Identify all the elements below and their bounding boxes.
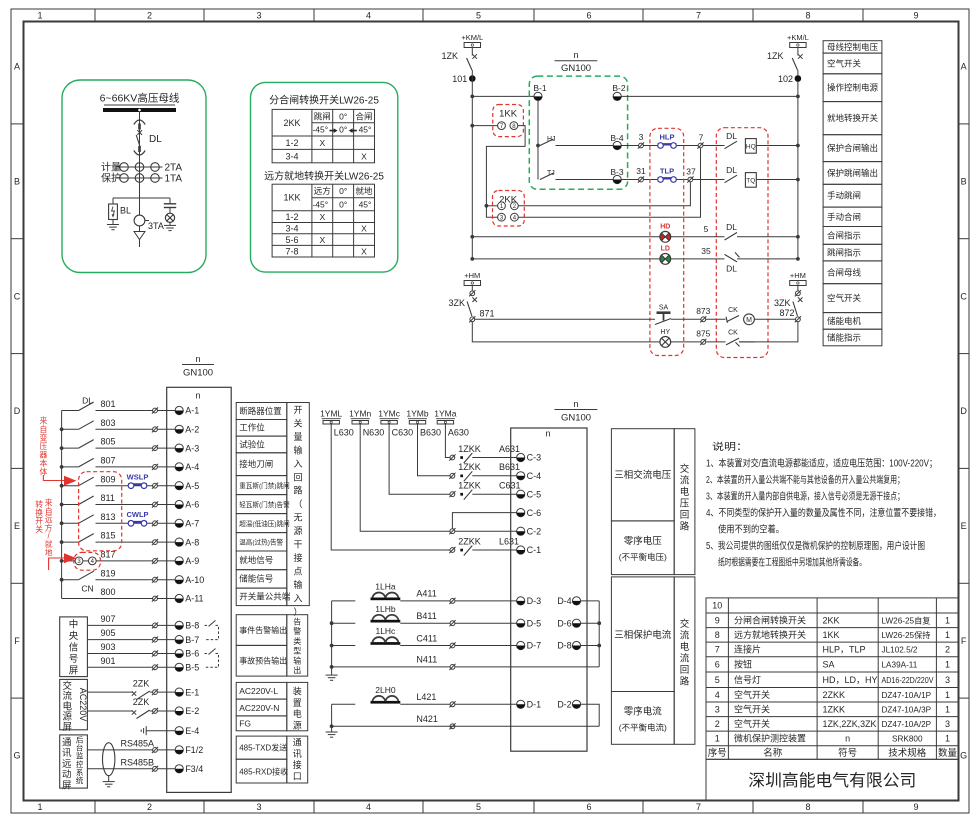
svg-text:1YML: 1YML [320, 409, 342, 419]
wire [643, 179, 657, 181]
svg-text:通讯接口: 通讯接口 [293, 738, 302, 782]
terminal A-2 [175, 425, 183, 433]
svg-text:手动跳闸: 手动跳闸 [827, 191, 861, 201]
svg-text:0°: 0° [339, 186, 347, 196]
svg-text:A-3: A-3 [185, 443, 199, 453]
input contact wire 813 [62, 522, 79, 524]
svg-text:C-5: C-5 [527, 489, 542, 499]
svg-text:GN100: GN100 [561, 63, 591, 74]
terminal RS485A [152, 747, 158, 753]
svg-text:903: 903 [101, 642, 116, 652]
svg-text:1、本装置对交/直流电源都能适应，适应电压范围：100V-2: 1、本装置对交/直流电源都能适应，适应电压范围：100V-220V； [706, 457, 937, 470]
svg-text:907: 907 [101, 614, 116, 624]
svg-text:AC220V: AC220V [78, 688, 88, 722]
svg-text:3: 3 [256, 802, 261, 812]
svg-text:X: X [361, 246, 367, 256]
wire [455, 622, 517, 624]
svg-text:纸时根据需要在工程图纸中另增加其他所需设备。: 纸时根据需要在工程图纸中另增加其他所需设备。 [718, 555, 866, 568]
svg-text:C631: C631 [499, 481, 521, 491]
svg-text:温高(过热)告警: 温高(过热)告警 [239, 538, 283, 547]
svg-text:5: 5 [715, 675, 720, 685]
svg-text:SA: SA [659, 305, 669, 312]
svg-text:序号: 序号 [708, 747, 727, 759]
svg-text:就地转换开关: 就地转换开关 [827, 113, 879, 123]
svg-text:F1/2: F1/2 [185, 745, 203, 755]
terminal D-1 [517, 700, 525, 708]
svg-text:空气开关: 空气开关 [734, 718, 770, 729]
wire [737, 236, 798, 238]
svg-text:31: 31 [636, 166, 646, 176]
svg-text:X: X [361, 151, 367, 161]
legend three-phase AC voltage [611, 429, 695, 575]
svg-text:5-6: 5-6 [285, 235, 298, 245]
svg-text:n: n [545, 429, 550, 439]
svg-text:E: E [14, 521, 20, 531]
motor M [744, 314, 755, 325]
svg-text:RS485B: RS485B [121, 757, 155, 767]
svg-text:2、本装置的开入量公共端不能与其他设备的开入量公共端复用；: 2、本装置的开入量公共端不能与其他设备的开入量公共端复用； [706, 473, 904, 486]
terminal 815 [152, 539, 158, 545]
svg-text:n: n [195, 390, 200, 400]
svg-text:合闸母线: 合闸母线 [827, 267, 862, 277]
terminal A-9 [175, 557, 183, 565]
svg-text:跳闸指示: 跳闸指示 [827, 248, 861, 258]
svg-text:GN100: GN100 [183, 368, 213, 379]
svg-text:远方就地转换开关: 远方就地转换开关 [734, 629, 806, 640]
svg-text:872: 872 [779, 308, 794, 318]
svg-text:2ZK: 2ZK [133, 678, 150, 688]
terminal F1/2 [175, 746, 183, 754]
svg-text:4: 4 [715, 690, 720, 700]
svg-text:按钮: 按钮 [734, 659, 752, 670]
svg-text:LW26-25保持: LW26-25保持 [882, 630, 931, 640]
svg-text:6: 6 [715, 660, 720, 670]
svg-text:C: C [14, 291, 21, 301]
svg-text:事故预告输出: 事故预告输出 [239, 656, 287, 666]
transformer-body inputs enclosure [79, 472, 122, 551]
svg-text:DL: DL [149, 134, 162, 145]
terminal B-8 [175, 621, 183, 629]
terminal A-6 [175, 500, 183, 508]
svg-text:2TA: 2TA [165, 162, 183, 173]
svg-text:901: 901 [101, 656, 116, 666]
terminal 801 [152, 407, 158, 413]
svg-text:A-6: A-6 [185, 500, 199, 510]
svg-text:通讯远动屏: 通讯远动屏 [62, 738, 72, 792]
panel central signal screen [60, 617, 88, 677]
wire [671, 258, 725, 260]
terminals on current rows [449, 598, 455, 604]
svg-text:7: 7 [696, 802, 701, 812]
terminal A-5 [175, 482, 183, 490]
switch tables enclosure [251, 82, 398, 272]
svg-text:D-8: D-8 [557, 641, 572, 651]
terminal D-3 [517, 597, 525, 605]
svg-text:D: D [14, 406, 21, 416]
svg-text:805: 805 [101, 437, 116, 447]
terminal E-2 [152, 708, 158, 714]
terminal E-1 [152, 689, 158, 695]
terminal C-6 [517, 508, 525, 516]
ground [326, 732, 338, 737]
wire [676, 145, 698, 147]
svg-text:9: 9 [913, 11, 918, 21]
svg-text:2KK: 2KK [283, 118, 300, 128]
svg-text:零序电压: 零序电压 [624, 535, 663, 547]
wire 871 down to HY row [472, 322, 660, 342]
wire [581, 622, 600, 624]
svg-text:工作位: 工作位 [239, 423, 265, 433]
terminal 819 [152, 577, 158, 583]
svg-text:3、本装置的开入量内部自供电源，接入信号必须是无源干接点；: 3、本装置的开入量内部自供电源，接入信号必须是无源干接点； [706, 490, 904, 503]
input contact wire 801 [62, 410, 79, 412]
CT 2TA [117, 166, 163, 168]
svg-text:连接片: 连接片 [734, 644, 761, 655]
svg-text:2KK: 2KK [823, 616, 840, 626]
svg-text:G: G [960, 751, 967, 761]
svg-text:开关量公共端: 开关量公共端 [239, 592, 291, 602]
terminal A-3 [175, 444, 183, 452]
svg-text:信号灯: 信号灯 [734, 674, 761, 685]
wire [581, 600, 600, 602]
svg-text:B-1: B-1 [533, 83, 547, 93]
svg-text:1ZKK: 1ZKK [823, 705, 846, 715]
svg-text:1ZKK: 1ZKK [458, 481, 481, 491]
input contact wire 805 [62, 447, 79, 449]
svg-text:交流电压回路: 交流电压回路 [680, 463, 690, 533]
wire D-2 return [581, 704, 600, 726]
wire B630 [418, 424, 451, 476]
breaker DL [134, 120, 145, 130]
svg-text:102: 102 [778, 74, 793, 84]
svg-text:C630: C630 [392, 427, 414, 437]
alarm contact B-6/B-5 [205, 649, 219, 668]
device GN100 enclosure [529, 76, 627, 189]
wire RS485B [87, 768, 152, 770]
svg-text:8: 8 [805, 802, 810, 812]
svg-text:GN100: GN100 [561, 413, 591, 424]
svg-text:L421: L421 [416, 692, 436, 702]
wire [671, 318, 701, 320]
svg-text:空气开关: 空气开关 [734, 704, 770, 715]
svg-text:n: n [845, 734, 850, 744]
one-line diagram enclosure [62, 80, 206, 273]
svg-text:1KK: 1KK [499, 109, 518, 120]
svg-text:2: 2 [147, 11, 152, 21]
svg-text:7: 7 [715, 645, 720, 655]
svg-text:1KK: 1KK [823, 630, 840, 640]
svg-text:7-8: 7-8 [285, 246, 298, 256]
svg-text:+KM/L: +KM/L [461, 33, 483, 42]
wire B-1 down [537, 101, 539, 180]
remote-local contacts enclosure [74, 552, 101, 570]
svg-text:远方: 远方 [314, 186, 331, 196]
svg-text:A-1: A-1 [185, 406, 199, 416]
svg-text:HY: HY [660, 329, 670, 336]
wire [737, 258, 798, 260]
svg-text:A-11: A-11 [185, 594, 203, 604]
svg-text:0°: 0° [339, 125, 347, 135]
svg-text:37: 37 [686, 167, 696, 177]
wire [455, 645, 517, 647]
CT 1TA [117, 177, 163, 179]
svg-text:L631: L631 [499, 536, 519, 546]
svg-text:873: 873 [696, 306, 710, 316]
svg-text:使用不到的空着。: 使用不到的空着。 [718, 522, 784, 535]
svg-text:DL: DL [726, 131, 737, 141]
svg-text:4、不同类型的保护开入量的数量及属性不同，注意位置不要接错，: 4、不同类型的保护开入量的数量及属性不同，注意位置不要接错， [706, 506, 941, 519]
svg-text:N421: N421 [416, 714, 438, 724]
svg-text:B630: B630 [420, 427, 441, 437]
panel communication screen [60, 735, 88, 788]
svg-text:1: 1 [945, 734, 950, 744]
svg-text:1: 1 [945, 630, 950, 640]
terminal C-3 [517, 453, 525, 461]
svg-text:3-4: 3-4 [285, 223, 298, 233]
CT 1LHc [332, 645, 356, 647]
input contact wire 811 [62, 504, 79, 506]
svg-text:811: 811 [101, 493, 115, 503]
terminal 905 [152, 637, 158, 643]
device GN100 box left [167, 387, 232, 792]
svg-text:A-8: A-8 [185, 537, 199, 547]
svg-text:CWLP: CWLP [126, 510, 148, 519]
wire [455, 530, 517, 532]
input bus [61, 411, 63, 599]
svg-text:微机保护测控装置: 微机保护测控装置 [734, 733, 806, 744]
earthing triangle [134, 232, 145, 240]
svg-text:1YMn: 1YMn [349, 409, 371, 419]
notes text [706, 440, 941, 568]
svg-text:X: X [319, 212, 325, 222]
ground [164, 225, 176, 230]
terminal C-5 [517, 490, 525, 498]
svg-text:B-5: B-5 [185, 663, 199, 673]
panel devices enclosure [650, 128, 684, 355]
svg-text:试验位: 试验位 [239, 439, 265, 449]
svg-text:(不平衡电流): (不平衡电流) [619, 723, 667, 733]
wire [581, 645, 600, 647]
svg-text:1: 1 [37, 11, 42, 21]
svg-text:来自变压器本体: 来自变压器本体 [40, 417, 48, 477]
breaker 1ZKK phase B [449, 473, 455, 479]
wire 901 [87, 666, 152, 668]
svg-text:交流电源屏: 交流电源屏 [63, 680, 73, 733]
switch 1KK [493, 105, 524, 137]
wire [621, 145, 638, 147]
svg-text:2ZK: 2ZK [133, 697, 150, 707]
svg-text:C-1: C-1 [527, 545, 542, 555]
svg-text:D-6: D-6 [557, 618, 572, 628]
svg-text:D: D [960, 406, 967, 416]
svg-text:1YMa: 1YMa [434, 409, 456, 419]
svg-text:G: G [13, 751, 20, 761]
svg-text:2ZKK: 2ZKK [823, 690, 846, 700]
svg-text:B631: B631 [499, 462, 520, 472]
svg-text:D-3: D-3 [527, 596, 542, 606]
svg-text:接地刀闸: 接地刀闸 [239, 459, 273, 469]
svg-text:1YMc: 1YMc [378, 409, 400, 419]
svg-text:4: 4 [366, 11, 371, 21]
coil TQ [745, 173, 756, 188]
svg-text:813: 813 [101, 512, 116, 522]
svg-text:6: 6 [586, 11, 591, 21]
svg-text:A630: A630 [448, 427, 469, 437]
terminal 809 [152, 483, 158, 489]
svg-text:1: 1 [945, 616, 950, 626]
terminal 901 [152, 664, 158, 670]
svg-text:5: 5 [476, 802, 481, 812]
svg-text:FG: FG [239, 718, 251, 728]
svg-text:1ZKK: 1ZKK [458, 444, 481, 454]
alarm contact B-8/B-7 [205, 620, 219, 639]
svg-text:A-9: A-9 [185, 556, 199, 566]
svg-text:DZ47-10A/3P: DZ47-10A/3P [882, 706, 932, 715]
svg-text:DZ47-10A/1P: DZ47-10A/1P [882, 691, 932, 700]
svg-text:储能信号: 储能信号 [239, 574, 273, 584]
svg-text:9: 9 [715, 616, 720, 626]
svg-text:5、我公司提供的图纸仅仅是微机保护的控制原理图，用户设计图: 5、我公司提供的图纸仅仅是微机保护的控制原理图，用户设计图 [706, 539, 925, 552]
svg-text:CK: CK [728, 329, 738, 336]
svg-text:B-8: B-8 [185, 621, 199, 631]
svg-text:3: 3 [945, 719, 950, 729]
title block company [706, 759, 959, 800]
surge arrester BL [112, 198, 114, 204]
svg-text:1LHc: 1LHc [375, 626, 396, 636]
svg-text:101: 101 [452, 74, 467, 84]
ground [107, 225, 119, 230]
legend three-phase protection current [611, 577, 695, 744]
wire E-1 [87, 691, 133, 693]
svg-text:深圳高能电气有限公司: 深圳高能电气有限公司 [748, 771, 916, 790]
svg-text:E-4: E-4 [185, 726, 199, 736]
svg-text:中央信号屏: 中央信号屏 [69, 619, 79, 677]
svg-text:B: B [961, 177, 967, 187]
svg-text:远方就地转换开关LW26-25: 远方就地转换开关LW26-25 [264, 170, 384, 183]
svg-text:AC220V-L: AC220V-L [239, 686, 278, 696]
wire 800 common [62, 598, 153, 600]
breaker 2ZKK [449, 547, 455, 553]
svg-text:LA39A-11: LA39A-11 [882, 661, 918, 670]
svg-text:3-4: 3-4 [285, 151, 298, 161]
terminal D-7 [517, 641, 525, 649]
svg-text:重瓦斯(门禁)跳闸: 重瓦斯(门禁)跳闸 [239, 481, 290, 490]
svg-text:计量: 计量 [101, 161, 121, 174]
svg-text:M: M [746, 317, 752, 324]
wire 1KK-8 to 2KK [486, 126, 525, 218]
svg-text:809: 809 [101, 474, 116, 484]
link TLP [658, 177, 677, 183]
svg-text:n: n [195, 354, 200, 364]
svg-text:跳闸: 跳闸 [314, 111, 331, 121]
svg-text:CK: CK [728, 307, 738, 314]
device GN100 box middle [511, 428, 587, 751]
svg-text:1-2: 1-2 [285, 212, 298, 222]
svg-text:JL102.5/2: JL102.5/2 [882, 646, 918, 655]
wire SA row [475, 318, 655, 320]
svg-text:DL: DL [726, 264, 737, 274]
svg-text:DL: DL [726, 165, 737, 175]
svg-text:X: X [361, 223, 367, 233]
svg-text:875: 875 [696, 328, 710, 338]
svg-text:AC220V-N: AC220V-N [239, 703, 279, 713]
svg-text:说明：: 说明： [712, 440, 748, 453]
svg-text:C: C [960, 291, 967, 301]
terminal [469, 290, 475, 296]
svg-text:E: E [961, 521, 967, 531]
svg-text:1: 1 [945, 690, 950, 700]
svg-text:1KK: 1KK [283, 193, 300, 203]
svg-text:X: X [319, 138, 325, 148]
wire [756, 145, 798, 147]
terminal A-8 [175, 538, 183, 546]
svg-text:SA: SA [823, 660, 835, 670]
svg-text:保护合闸输出: 保护合闸输出 [827, 143, 878, 153]
wire [621, 179, 638, 181]
svg-text:SRK800: SRK800 [892, 735, 923, 744]
wire [455, 600, 517, 602]
svg-text:A-10: A-10 [185, 575, 204, 585]
svg-text:819: 819 [101, 568, 116, 578]
svg-text:9: 9 [913, 802, 918, 812]
svg-text:3ZK: 3ZK [774, 298, 791, 308]
svg-text:2ZKK: 2ZKK [458, 536, 481, 546]
wire [739, 341, 755, 343]
terminal A-1 [175, 406, 183, 414]
wire [706, 341, 726, 343]
terminal D-5 [517, 619, 525, 627]
terminal A-11 [175, 594, 183, 602]
svg-text:485-TXD发送: 485-TXD发送 [239, 743, 287, 753]
wire 2KK-2 to node 37 [518, 182, 690, 206]
svg-text:轻瓦斯(门禁)告警: 轻瓦斯(门禁)告警 [239, 500, 290, 509]
svg-text:1YMb: 1YMb [406, 409, 428, 419]
terminal 803 [152, 426, 158, 432]
svg-text:6~66KV高压母线: 6~66KV高压母线 [100, 92, 180, 105]
svg-text:储能指示: 储能指示 [827, 333, 861, 343]
legend alarm outputs [236, 615, 307, 676]
svg-text:储能电机: 储能电机 [827, 316, 862, 326]
svg-text:A411: A411 [416, 589, 436, 599]
svg-text:DL: DL [82, 396, 93, 406]
svg-text:2: 2 [715, 719, 720, 729]
terminal F3/4 [175, 765, 183, 773]
svg-text:分合闸转换开关LW26-25: 分合闸转换开关LW26-25 [269, 94, 379, 107]
svg-text:分闸合闸转换开关: 分闸合闸转换开关 [734, 615, 806, 626]
svg-text:-45°: -45° [312, 200, 328, 210]
svg-text:3: 3 [715, 705, 720, 715]
svg-text:E-2: E-2 [185, 706, 199, 716]
svg-text:4: 4 [366, 802, 371, 812]
svg-text:A631: A631 [499, 444, 520, 454]
svg-text:1TA: 1TA [165, 173, 183, 184]
terminal E-4 frame ground [141, 726, 146, 735]
svg-text:保护跳闸输出: 保护跳闸输出 [827, 168, 878, 178]
coil HQ [745, 139, 756, 154]
svg-text:空气开关: 空气开关 [827, 58, 862, 68]
left control bus [471, 70, 473, 259]
breaker 1ZKK phase C [449, 491, 455, 497]
svg-text:名称: 名称 [763, 747, 783, 759]
svg-text:D-2: D-2 [557, 700, 572, 710]
wire [671, 341, 701, 343]
svg-text:D-1: D-1 [527, 700, 542, 710]
1KK switch table [272, 184, 374, 257]
svg-text:B411: B411 [416, 611, 436, 621]
svg-text:操作控制电源: 操作控制电源 [827, 83, 879, 93]
wire 907 [87, 624, 152, 626]
terminal B-6 [175, 649, 183, 657]
